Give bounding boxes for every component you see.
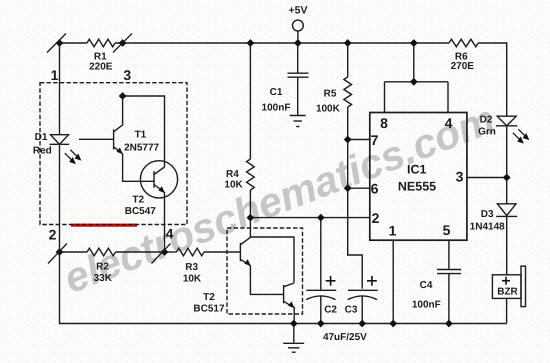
svg-text:C4: C4 <box>420 280 433 291</box>
resistor R2 <box>87 248 116 256</box>
arrow T2 BC547 emitter <box>158 186 165 193</box>
wire top rail right + down to D2 <box>478 43 507 116</box>
svg-text:C1: C1 <box>270 87 283 98</box>
LED light arrows D2 <box>513 133 521 141</box>
svg-text:7: 7 <box>371 132 379 148</box>
wire pin6 stub <box>348 187 370 189</box>
svg-text:8: 8 <box>380 115 388 131</box>
svg-text:T2: T2 <box>203 292 215 303</box>
svg-text:BZR: BZR <box>497 287 518 298</box>
node dot R4 bottom <box>247 214 255 222</box>
node dot C2 bottom <box>317 320 325 328</box>
resistor R4 <box>249 43 251 159</box>
svg-text:R5: R5 <box>324 89 337 100</box>
+5V supply <box>293 20 304 31</box>
svg-text:1: 1 <box>389 223 397 239</box>
wire T1 collector node <box>123 96 165 167</box>
LED light arrows D1 <box>65 129 529 163</box>
arrowheads <box>117 148 295 309</box>
wire left vertical to D1 <box>59 43 61 135</box>
node dot top1 <box>56 39 64 47</box>
svg-text:270E: 270E <box>451 61 475 72</box>
node dot pin1 bottom <box>389 320 397 328</box>
LED D1 <box>51 135 69 145</box>
svg-text:NE555: NE555 <box>398 180 436 194</box>
svg-text:2: 2 <box>372 210 380 226</box>
svg-text:6: 6 <box>371 180 379 196</box>
node dot pin3 <box>503 174 511 182</box>
svg-text:3: 3 <box>123 67 131 83</box>
svg-text:1: 1 <box>51 67 59 83</box>
svg-text:BC547: BC547 <box>125 206 157 217</box>
node dot pin8-4 bridge <box>410 78 418 86</box>
svg-text:1N4148: 1N4148 <box>470 222 505 233</box>
svg-text:IC1: IC1 <box>407 162 427 176</box>
node dot R4 top <box>247 39 255 47</box>
slashes on junctions <box>47 34 171 264</box>
slash node1 <box>47 34 66 53</box>
node dot T1 collector <box>119 92 127 100</box>
transistor Q-A of BC517 <box>239 243 241 261</box>
wire pin4 stub <box>447 82 449 113</box>
capacitor C2 <box>320 218 322 290</box>
slash node3 <box>113 34 132 53</box>
wire R2 leads <box>60 251 88 253</box>
svg-text:R3: R3 <box>185 262 198 273</box>
svg-text:100K: 100K <box>316 104 341 115</box>
svg-text:10K: 10K <box>183 273 202 284</box>
slash node4 <box>152 244 171 264</box>
capacitor C1 <box>297 43 299 73</box>
node dot junction4 <box>161 248 169 256</box>
plus signs C2 C3 <box>326 276 510 286</box>
wire pin7 stub <box>348 139 370 141</box>
dashed box sensor module <box>40 83 187 225</box>
node dot gnd rail <box>290 320 298 328</box>
node dot IC supply <box>410 39 418 47</box>
wire D1 cathode down <box>59 144 61 252</box>
LED D2 <box>497 116 516 126</box>
wire pin2 trigger rail <box>250 217 369 219</box>
resistor R6 <box>449 39 478 47</box>
ground C1 <box>290 115 306 117</box>
svg-text:4: 4 <box>445 115 453 131</box>
node dot pin7 <box>344 136 352 144</box>
plus sign BZR <box>502 280 510 282</box>
label IC1 NE555 <box>398 162 436 193</box>
transistor T1 2N5777 <box>113 130 115 150</box>
svg-text:2N5777: 2N5777 <box>124 142 159 153</box>
node dot junction2 <box>56 248 64 256</box>
svg-text:4: 4 <box>166 226 174 242</box>
wire supply bridge to pins 8-4 <box>385 81 449 83</box>
wire top rail mid <box>115 42 449 44</box>
wire R3 leads <box>165 251 177 253</box>
svg-text:2: 2 <box>49 227 57 243</box>
capacitor C4 <box>437 269 461 271</box>
svg-text:BC517: BC517 <box>193 303 225 314</box>
resistor R1 <box>87 39 115 47</box>
svg-text:100nF: 100nF <box>412 300 441 311</box>
wire pin5 stub <box>448 240 450 269</box>
svg-text:33K: 33K <box>94 273 113 284</box>
node dot C4 bottom <box>445 320 453 328</box>
dashed box T2 BC517 <box>227 228 303 314</box>
diode D3 <box>506 178 508 204</box>
wire top rail left <box>60 42 88 44</box>
darlington T2 BC517 collector <box>250 218 294 283</box>
svg-text:Grn: Grn <box>478 127 496 138</box>
wire junction2 down to bottom rail <box>60 252 507 324</box>
arrow QA emitter <box>244 259 251 266</box>
svg-text:R2: R2 <box>96 262 109 273</box>
node dot R5 top <box>344 39 352 47</box>
svg-text:T1: T1 <box>135 130 147 141</box>
resistor R3 <box>177 248 205 256</box>
svg-text:C2: C2 <box>324 305 337 316</box>
arrow QB emitter <box>288 301 295 308</box>
svg-text:220E: 220E <box>89 61 113 72</box>
svg-text:D1: D1 <box>35 132 48 143</box>
svg-text:R4: R4 <box>226 169 239 180</box>
svg-text:5: 5 <box>443 222 451 238</box>
slash node2 <box>48 244 67 264</box>
node dot C3 bottom <box>358 320 366 328</box>
svg-text:Red: Red <box>33 145 52 156</box>
svg-text:D2: D2 <box>480 115 493 126</box>
buzzer BZR <box>492 275 521 299</box>
node dot C2 top <box>317 214 325 222</box>
svg-text:47uF/25V: 47uF/25V <box>323 332 367 343</box>
svg-text:100nF: 100nF <box>262 103 291 114</box>
wire pin8 stub <box>384 82 386 113</box>
svg-text:3: 3 <box>456 169 464 185</box>
svg-text:T2: T2 <box>132 194 144 205</box>
resistor R5 <box>347 43 349 77</box>
IC U1 NE555 box <box>370 113 467 241</box>
wire pin3 stub <box>467 177 507 179</box>
wire R5 down to C3 elbow <box>348 107 363 289</box>
svg-text:10K: 10K <box>224 180 243 191</box>
wire pin1 to ground rail <box>392 240 394 323</box>
node dot pin6 <box>344 184 352 192</box>
arrow T1 emitter <box>117 148 123 155</box>
svg-text:D3: D3 <box>481 209 494 220</box>
ground bottom <box>293 324 295 343</box>
transistor T2 BC547 <box>140 161 177 198</box>
transistor Q-B of BC517 <box>283 285 285 303</box>
capacitor C3 <box>348 289 378 291</box>
pin and node numbers <box>49 67 464 243</box>
node dot top3 <box>119 39 127 47</box>
node dot +5V <box>294 39 302 47</box>
svg-text:C3: C3 <box>345 305 358 316</box>
svg-text:+5V: +5V <box>289 5 308 17</box>
red highlight bar <box>71 224 137 227</box>
